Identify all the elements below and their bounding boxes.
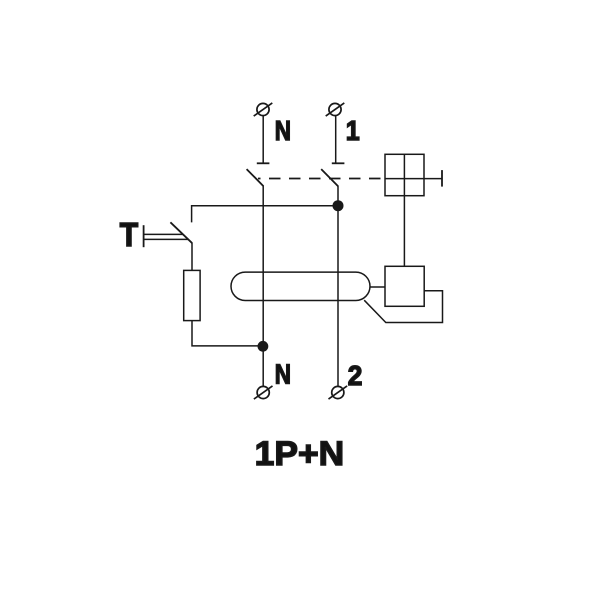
wire blade to resistor	[191, 243, 193, 271]
switch blade N-pole	[247, 169, 264, 186]
terminal N bottom (circle with slash)	[254, 386, 273, 399]
wire test branch horizontal (top)	[192, 206, 338, 223]
switch blade 1-pole	[321, 169, 338, 186]
svg-text:T: T	[120, 216, 138, 253]
wire 1-pole drop from terminal to contact	[335, 116, 337, 163]
svg-text:1: 1	[346, 115, 360, 146]
resistor (test)	[184, 270, 200, 320]
wire N-pole main vertical	[262, 186, 264, 386]
toroid current transformer	[231, 272, 370, 300]
wire resistor to N-pole junction	[192, 321, 263, 346]
test button actuator (two bars)	[144, 225, 189, 247]
terminal N top (circle with slash)	[254, 103, 273, 116]
junction dot (pole 1 / test wire)	[333, 200, 344, 211]
test button blade	[170, 222, 192, 243]
mechanism box horizontal line to handle	[385, 178, 442, 180]
wire 1-pole main vertical	[337, 186, 339, 386]
contact fixed bar N-pole	[257, 162, 270, 164]
mechanism box	[385, 154, 424, 195]
trip coil box	[385, 266, 424, 306]
mechanism linkage (dashed)	[258, 178, 385, 180]
terminal 1 top (circle with slash)	[326, 103, 345, 116]
wire toroid to trip coil	[370, 286, 385, 288]
handle tick	[441, 170, 443, 187]
wire trip coil return loop to toroid	[364, 291, 442, 323]
contact fixed bar 1-pole	[332, 162, 345, 164]
svg-text:N: N	[275, 115, 291, 146]
junction dot (N pole / test wire)	[258, 341, 269, 352]
terminal 2 bottom (circle with slash)	[329, 386, 348, 399]
svg-text:N: N	[275, 359, 291, 390]
mechanism box center vertical / link to trip coil	[403, 154, 405, 266]
wire N-pole drop from terminal to contact	[262, 116, 264, 163]
svg-text:1P+N: 1P+N	[255, 435, 344, 473]
svg-text:2: 2	[348, 360, 363, 391]
